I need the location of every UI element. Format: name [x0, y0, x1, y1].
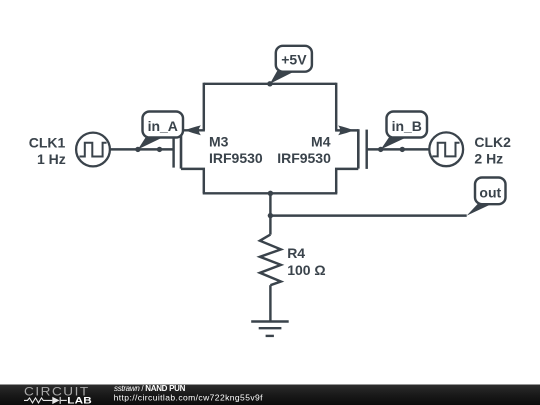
wire M3 source vertical — [203, 83, 205, 131]
svg-text:LAB: LAB — [67, 397, 92, 405]
svg-text:M3: M3 — [209, 133, 229, 149]
wire top rail V+ — [204, 83, 336, 85]
ground symbol — [251, 322, 289, 336]
source CLK1 circle — [76, 133, 110, 167]
node junction dot on top rail (+5V tap) — [267, 81, 272, 86]
svg-text:2 Hz: 2 Hz — [474, 150, 503, 166]
transistor M4 channel bar — [357, 129, 360, 168]
node junction dot bottom rail center — [268, 191, 273, 196]
resistor R4 zigzag — [260, 235, 281, 286]
svg-text:IRF9530: IRF9530 — [277, 150, 331, 166]
svg-text:R4: R4 — [287, 245, 305, 261]
node junction dot out branch — [268, 213, 273, 218]
svg-text:out: out — [479, 185, 501, 201]
svg-text:CLK1: CLK1 — [29, 135, 66, 151]
node junction dot gate wire A — [157, 147, 162, 152]
net flag out tail — [467, 203, 491, 215]
svg-text:+5V: +5V — [281, 51, 307, 67]
source CLK1 square wave glyph — [79, 143, 106, 157]
node junction dot gate wire B — [400, 147, 405, 152]
wire M4 source vertical — [335, 83, 337, 131]
svg-text:1 Hz: 1 Hz — [37, 151, 66, 167]
transistor M4 source arrow (PMOS, pointing right) — [338, 126, 354, 136]
wire resistor to ground — [269, 285, 271, 321]
wire M4 drain lead — [336, 169, 358, 193]
net flag +5V tail — [270, 71, 294, 84]
net flag +5V box — [276, 46, 312, 72]
transistor M4 gate bar — [365, 130, 367, 169]
svg-text:in_A: in_A — [148, 118, 178, 134]
net flag in_B box — [387, 112, 428, 138]
footer logo diode triangle — [52, 397, 59, 404]
wire M3 drain lead — [181, 169, 204, 193]
source CLK2 square wave glyph — [432, 143, 459, 157]
wire CLK1 to M3 gate — [110, 148, 174, 150]
svg-text:IRF9530: IRF9530 — [209, 150, 263, 166]
net flag out box — [475, 178, 506, 205]
svg-text:in_B: in_B — [392, 118, 422, 134]
wire out branch horizontal — [270, 214, 466, 216]
transistor M3 channel bar — [180, 129, 183, 168]
transistor M3 source arrow (PMOS, pointing left) — [185, 125, 201, 135]
net flag in_B tail — [381, 136, 408, 150]
svg-text:100 Ω: 100 Ω — [287, 262, 325, 278]
wire M3 source lead horizontal — [181, 129, 205, 131]
wire M4 gate to CLK2 — [367, 148, 430, 150]
source CLK2 circle — [429, 132, 463, 166]
wire M4 source lead horizontal — [335, 129, 358, 131]
wire bottom rail — [203, 192, 338, 194]
svg-text:http://circuitlab.com/cw722kng: http://circuitlab.com/cw722kng55v9f — [114, 393, 264, 403]
svg-text:M4: M4 — [311, 133, 331, 149]
footer logo resistor-diode symbol — [24, 397, 67, 404]
net flag in_A tail — [138, 136, 164, 150]
footer bar background — [0, 385, 540, 405]
transistor M3 gate bar — [172, 130, 174, 168]
node junction dot in_B tap — [378, 147, 383, 152]
wire center vertical to resistor — [269, 193, 271, 234]
node junction dot in_A tap — [135, 147, 140, 152]
svg-text:CLK2: CLK2 — [474, 134, 511, 150]
net flag in_A box — [143, 112, 184, 138]
